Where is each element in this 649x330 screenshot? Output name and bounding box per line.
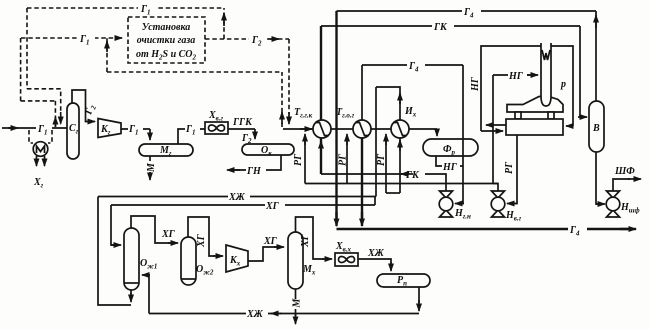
pump Ншф	[606, 191, 620, 217]
svg-text:РГ: РГ	[293, 153, 304, 166]
wire Г1 top dashed	[27, 2, 224, 14]
column Ож2	[181, 237, 196, 285]
reactor coil box	[506, 119, 563, 135]
wire dashed elbow to feed	[27, 89, 61, 114]
wire ХГ long line	[111, 199, 375, 210]
wire dashed drop x289 with down arrow	[288, 39, 290, 114]
wire Рп return into Ож1	[147, 275, 149, 314]
wire Г4 top line	[337, 5, 597, 17]
wire Тггк top riser to ГК line	[320, 26, 322, 120]
svg-text:ХЖ: ХЖ	[246, 309, 264, 320]
wire Г2 dashed out of box	[205, 33, 289, 45]
svg-text:ГК: ГК	[405, 170, 420, 181]
svg-text:НГ: НГ	[442, 162, 458, 173]
svg-text:Их: Их	[404, 106, 417, 119]
svg-text:ХЖ: ХЖ	[228, 192, 246, 203]
pump Нгн	[439, 191, 453, 217]
wire Кх discharge to Мх	[248, 247, 277, 261]
wire Ож1 bottom into ХЖ return	[130, 290, 132, 296]
wire dashed elbow 2 with short arrow	[21, 100, 56, 102]
cooler Хвх	[335, 253, 358, 266]
reactor stack tube	[541, 43, 551, 106]
wire Ож1 overhead to Ож2	[131, 216, 170, 243]
wire Нвг discharge to РГ header	[493, 184, 498, 192]
svg-text:Хв.г: Хв.г	[208, 110, 224, 123]
reactor legs	[515, 112, 521, 119]
wire dashed left vertical 2	[20, 38, 22, 101]
column Мх	[288, 232, 303, 289]
wire ГК drop into В	[580, 26, 582, 117]
svg-text:ХГ: ХГ	[265, 201, 280, 212]
wire ХЖ long line	[98, 191, 376, 202]
wire Тгог bottom drop to Г4 bottom line	[361, 138, 363, 218]
exchanger Тгог	[353, 120, 371, 138]
exchanger Их	[391, 120, 409, 138]
wire Г4 inner right drop to pump suction	[457, 65, 463, 204]
svg-text:Ож1: Ож1	[140, 258, 157, 271]
svg-text:Тг.о.г: Тг.о.г	[336, 107, 355, 120]
wire dashed bottom return	[107, 71, 282, 73]
drum Фр	[423, 139, 478, 156]
wire РГ from furnace to Нвг	[509, 135, 517, 204]
svg-text:НГ: НГ	[508, 71, 524, 82]
wire РГ riser 3	[385, 136, 387, 193]
wire ХГ corner riser	[374, 197, 376, 206]
wire РГ header h2	[305, 183, 498, 185]
svg-text:РГ: РГ	[376, 153, 387, 166]
svg-text:В: В	[592, 123, 600, 134]
wire Их bottom drop	[399, 138, 401, 193]
svg-text:от H2S и CO2: от H2S и CO2	[136, 49, 197, 62]
wire В overhead to Г4	[595, 11, 597, 101]
wire Мх overhead to Хвх	[296, 217, 325, 259]
wire Г1 dashed into box	[21, 32, 122, 44]
svg-text:М: М	[146, 162, 157, 173]
wire Сг overhead to compressor	[72, 90, 90, 122]
wire Их outlet to Фр	[436, 129, 438, 133]
svg-text:Тг.г.к: Тг.г.к	[294, 107, 313, 120]
svg-text:Установка: Установка	[142, 22, 191, 33]
wire Ок bottom to ГН	[232, 155, 281, 170]
wire ГГК to Ок	[228, 128, 255, 130]
wire ХЖ to Рп	[358, 259, 391, 264]
wire Г4 bottom export	[337, 223, 631, 235]
svg-text:ХЖ: ХЖ	[367, 248, 385, 259]
wire ХЖ left downcomer	[98, 197, 131, 306]
wire between exchangers	[331, 128, 353, 130]
svg-text:Хг: Хг	[33, 177, 44, 190]
wire РГ riser 1	[304, 136, 306, 184]
wire dashed riser x107 with up arrow	[106, 38, 108, 72]
svg-text:Нг.н: Нг.н	[454, 208, 471, 221]
cooler Хг dashed hookup	[29, 130, 33, 143]
wire ГК pump line	[321, 168, 446, 191]
wire ШФ product	[613, 179, 630, 191]
svg-text:РГ: РГ	[504, 161, 515, 174]
svg-text:очистки газа: очистки газа	[137, 35, 196, 46]
wire НГ from Фр bottom	[436, 156, 463, 166]
svg-text:ГН: ГН	[246, 166, 262, 177]
wire dashed riser x282 with up arrow	[281, 72, 283, 127]
wire dashed drop x224 with up arrow	[223, 8, 225, 39]
compressor Кх	[226, 245, 248, 272]
svg-text:Нв.г: Нв.г	[505, 210, 522, 223]
compressor Кг	[98, 119, 121, 138]
wire feed inlet	[2, 127, 67, 129]
wire Мг overhead	[178, 129, 205, 144]
wire Мг bottom discharge	[149, 156, 151, 170]
wire Их top loop	[376, 87, 400, 120]
column Ож1	[124, 228, 139, 290]
drum Мг	[139, 144, 193, 156]
wire furnace frame top	[481, 46, 573, 131]
wire Ож2 overhead to Кх	[188, 217, 215, 256]
drum Рп	[377, 274, 430, 287]
wire Мх bottom drain	[295, 289, 297, 316]
wire НГ into reactor stack	[493, 69, 530, 81]
wire Тггк bottom to ГК return	[320, 138, 322, 174]
wire Г2+РГ into exchangers	[283, 128, 313, 130]
pump Нвг	[491, 191, 505, 217]
svg-text:НГ: НГ	[470, 76, 481, 92]
separator Сг	[67, 103, 79, 159]
svg-text:ХГ: ХГ	[263, 236, 278, 247]
svg-text:ХГ: ХГ	[196, 233, 207, 248]
cooler Хг machine circle	[33, 142, 48, 157]
wire Г4 drop crossing Фр	[462, 139, 464, 156]
svg-text:ШФ: ШФ	[614, 166, 635, 177]
svg-text:Ож2: Ож2	[196, 264, 214, 277]
svg-text:Хв.х: Хв.х	[335, 241, 352, 254]
svg-text:М: М	[292, 298, 303, 309]
wire Тгог top riser	[361, 65, 363, 120]
wire frame right into coil box	[566, 125, 573, 127]
wire Их top loop left drop to ХЖ	[375, 87, 377, 197]
svg-text:Г2: Г2	[241, 133, 252, 145]
wire dashed arrow into feed line	[60, 112, 62, 124]
column В	[589, 101, 604, 152]
wire dashed left vertical 1	[26, 8, 28, 89]
wire В bottoms to Ншф	[596, 152, 598, 204]
wire Г4 inner line	[362, 59, 463, 71]
svg-text:РГ: РГ	[338, 153, 349, 166]
wire coil box outlet left	[486, 124, 506, 126]
svg-text:Ншф: Ншф	[620, 202, 640, 215]
wire Кг discharge	[121, 128, 150, 130]
reactor stack zigzag	[542, 50, 550, 60]
unit gas purification dashed box	[128, 17, 205, 63]
node М rotated label	[146, 161, 155, 172]
column Ож2 chord	[181, 278, 196, 280]
drum Ок	[242, 144, 294, 155]
wire Г4 main drop	[335, 11, 337, 218]
svg-text:ГГК: ГГК	[232, 117, 253, 128]
reactor shoe base	[507, 97, 563, 113]
wire ГК top line	[321, 20, 580, 32]
wire НГ riser to furnace coil	[492, 75, 494, 184]
wire frame left into coil box	[481, 130, 503, 132]
svg-text:ГК: ГК	[433, 22, 448, 33]
svg-text:p: p	[560, 79, 566, 90]
wire РГ riser 2	[346, 136, 348, 184]
wire Рп bottoms drop	[418, 287, 420, 303]
wire drop into Мг	[149, 129, 151, 138]
wire Их bottoms to РГ riser 3	[386, 192, 400, 194]
wire ХЖ bottom return line	[149, 308, 419, 319]
svg-text:Мх: Мх	[302, 264, 316, 277]
exchanger Тггк	[313, 120, 331, 138]
svg-text:ХГ: ХГ	[300, 233, 311, 248]
svg-text:ХГ: ХГ	[161, 229, 176, 240]
wire Хг discharge arrows	[36, 156, 38, 166]
cooler Хвг	[205, 122, 228, 134]
wire ХГ left downcomer into Ож1	[111, 205, 114, 245]
